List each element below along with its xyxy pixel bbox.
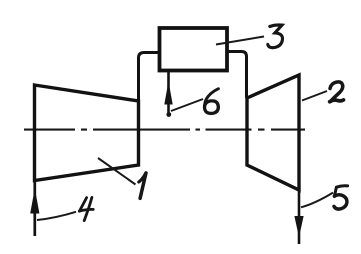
- label 3: [268, 25, 283, 48]
- centerline: [24, 129, 305, 131]
- turbine 2: [247, 75, 299, 190]
- leader to label 5: [301, 193, 333, 208]
- arrow 5 exhaust: [298, 190, 301, 244]
- leader to label 2: [302, 91, 327, 101]
- leader to label 6: [171, 99, 203, 111]
- label 4: [79, 197, 93, 220]
- wire left pipe compressor to chamber: [139, 53, 160, 101]
- leader to label 1: [98, 158, 136, 185]
- wire right pipe chamber to turbine: [227, 52, 247, 99]
- leader to label 3: [216, 37, 264, 45]
- label 5: [334, 186, 348, 209]
- compressor 1: [35, 85, 139, 181]
- label 6: [204, 89, 218, 114]
- arrow 6 fuel in: [167, 72, 170, 115]
- arrow 4 inlet air: [33, 180, 36, 236]
- leader to label 4: [37, 212, 76, 220]
- label 2: [330, 82, 344, 102]
- combustion chamber 3: [160, 28, 228, 71]
- label 1: [139, 173, 146, 198]
